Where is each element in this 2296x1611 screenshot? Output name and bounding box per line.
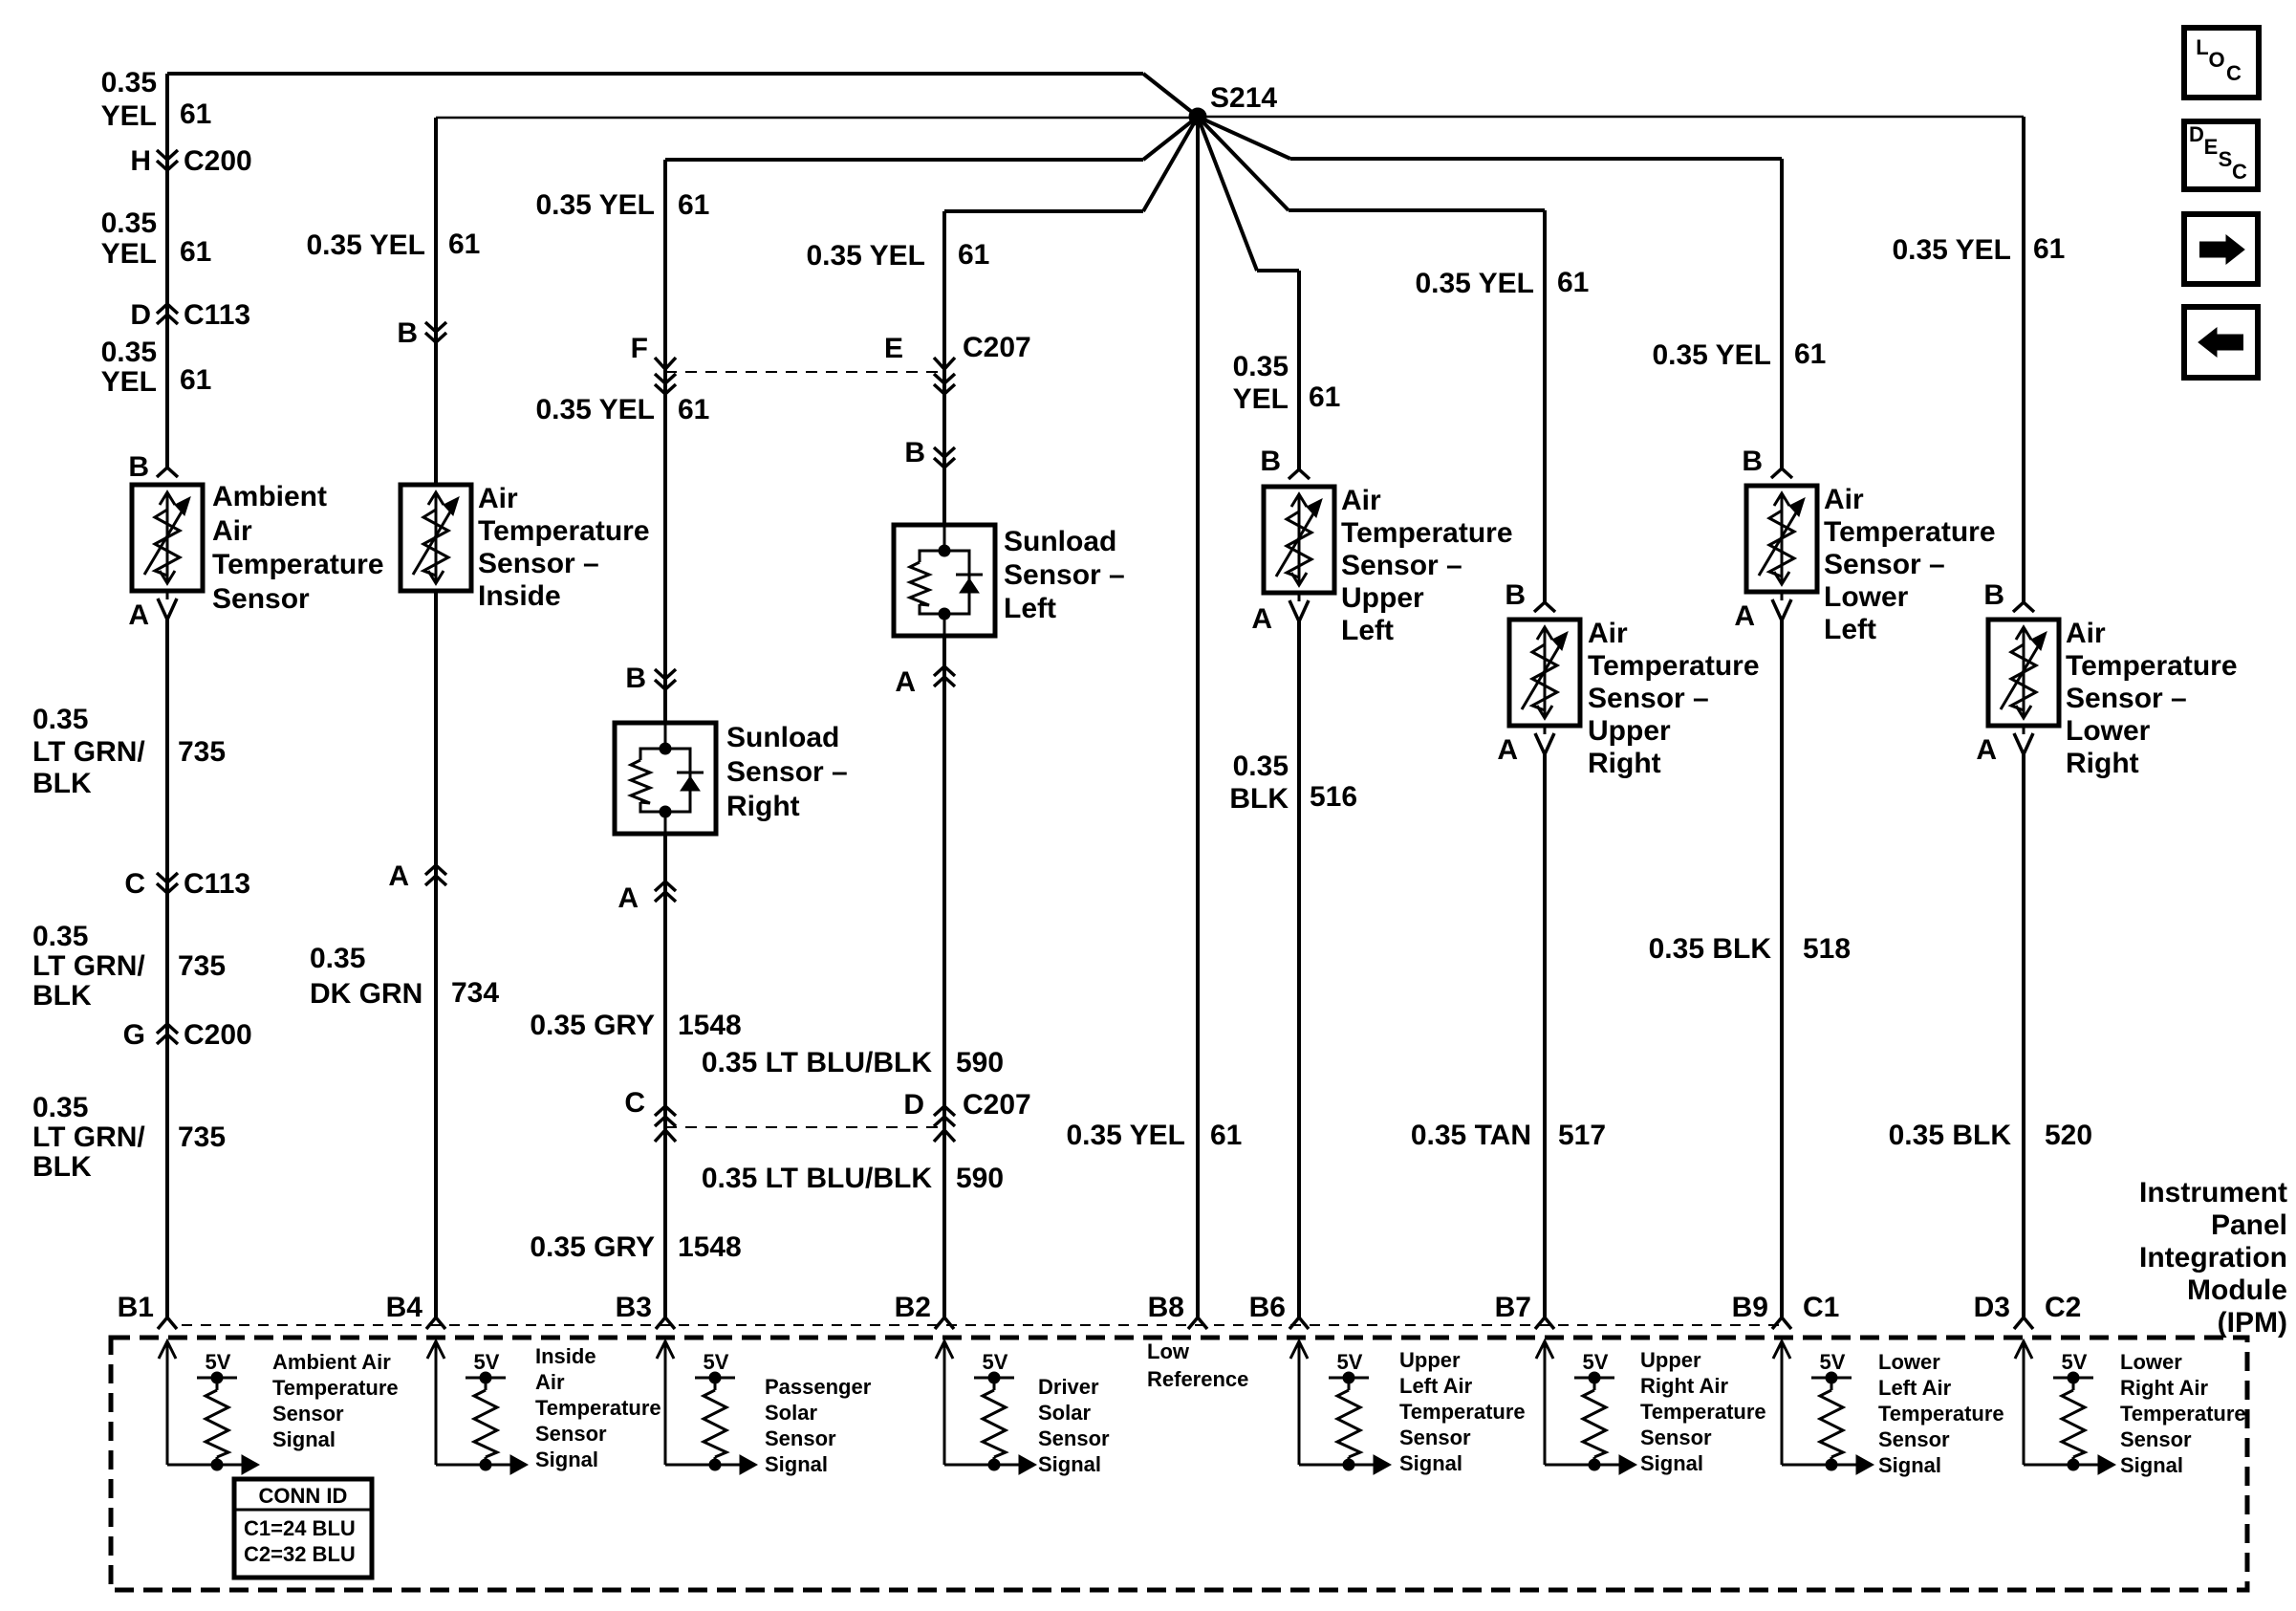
svg-text:0.35 LT BLU/BLK: 0.35 LT BLU/BLK [702, 1163, 932, 1194]
svg-text:Upper: Upper [1640, 1348, 1701, 1372]
svg-text:Air: Air [535, 1370, 565, 1394]
svg-text:61: 61 [180, 364, 211, 396]
svg-text:0.35 YEL: 0.35 YEL [306, 229, 425, 261]
svg-text:0.35: 0.35 [32, 1092, 88, 1123]
svg-text:BLK: BLK [32, 768, 92, 799]
svg-text:A: A [1734, 600, 1755, 632]
svg-text:61: 61 [1557, 267, 1589, 298]
svg-text:Signal: Signal [765, 1452, 828, 1476]
svg-text:Left: Left [1824, 614, 1876, 645]
svg-text:Sunload: Sunload [726, 722, 839, 753]
svg-text:C: C [2232, 160, 2247, 184]
svg-text:Left Air: Left Air [1878, 1376, 1952, 1400]
svg-text:0.35 YEL: 0.35 YEL [806, 240, 925, 272]
svg-text:D: D [130, 299, 151, 331]
svg-text:Air: Air [478, 483, 518, 514]
svg-text:Temperature: Temperature [1640, 1400, 1766, 1424]
svg-text:61: 61 [448, 229, 480, 260]
svg-text:C2=32 BLU: C2=32 BLU [244, 1542, 356, 1566]
svg-text:Instrument: Instrument [2139, 1177, 2287, 1208]
svg-text:Sensor –: Sensor – [1824, 549, 1945, 580]
svg-text:5V: 5V [206, 1350, 231, 1374]
svg-text:Panel: Panel [2211, 1209, 2287, 1241]
svg-text:Integration: Integration [2139, 1242, 2287, 1274]
svg-text:C2: C2 [2045, 1292, 2081, 1323]
svg-text:B: B [1742, 446, 1763, 477]
svg-text:Signal: Signal [1640, 1451, 1703, 1475]
svg-text:0.35: 0.35 [101, 337, 157, 368]
svg-text:B: B [1505, 579, 1526, 611]
svg-text:YEL: YEL [101, 100, 157, 132]
svg-text:F: F [631, 333, 648, 364]
svg-text:Sensor: Sensor [1640, 1426, 1712, 1449]
svg-text:5V: 5V [1337, 1350, 1363, 1374]
svg-text:735: 735 [178, 1121, 226, 1153]
svg-text:Air: Air [1824, 484, 1864, 515]
svg-text:Lower: Lower [2066, 715, 2151, 747]
svg-text:B6: B6 [1249, 1292, 1286, 1323]
svg-text:Temperature: Temperature [1399, 1400, 1526, 1424]
svg-text:BLK: BLK [32, 980, 92, 1012]
svg-text:C: C [624, 1087, 645, 1119]
svg-text:0.35: 0.35 [32, 704, 88, 735]
svg-text:Sensor: Sensor [1878, 1427, 1950, 1451]
svg-text:YEL: YEL [1233, 383, 1289, 415]
svg-text:Right: Right [726, 791, 800, 822]
svg-text:D3: D3 [1974, 1292, 2010, 1323]
svg-text:735: 735 [178, 950, 226, 982]
svg-text:Lower: Lower [2120, 1350, 2182, 1374]
svg-text:Sensor –: Sensor – [726, 756, 848, 788]
svg-text:Upper: Upper [1341, 582, 1424, 614]
svg-text:Sensor –: Sensor – [2066, 683, 2187, 714]
svg-text:A: A [128, 599, 149, 631]
svg-text:0.35 YEL: 0.35 YEL [1892, 234, 2011, 266]
svg-text:734: 734 [451, 977, 499, 1009]
svg-text:590: 590 [956, 1047, 1004, 1078]
svg-text:D: D [2189, 122, 2204, 146]
svg-text:590: 590 [956, 1163, 1004, 1194]
svg-text:Left: Left [1004, 593, 1056, 624]
svg-text:Temperature: Temperature [1341, 517, 1513, 549]
svg-text:Temperature: Temperature [212, 549, 384, 580]
svg-text:Sensor: Sensor [212, 583, 310, 615]
svg-text:Signal: Signal [1878, 1453, 1941, 1477]
svg-text:0.35: 0.35 [32, 921, 88, 952]
svg-text:5V: 5V [474, 1350, 500, 1374]
svg-text:0.35 YEL: 0.35 YEL [1415, 268, 1534, 299]
svg-text:61: 61 [958, 239, 989, 271]
svg-text:Temperature: Temperature [2120, 1402, 2246, 1426]
svg-text:61: 61 [2033, 233, 2065, 265]
svg-text:0.35: 0.35 [101, 67, 157, 98]
svg-text:61: 61 [678, 394, 709, 425]
svg-text:C113: C113 [184, 868, 250, 900]
svg-text:A: A [1497, 734, 1518, 766]
svg-text:5V: 5V [1820, 1350, 1846, 1374]
svg-text:C207: C207 [963, 332, 1031, 363]
svg-text:Low: Low [1147, 1339, 1190, 1363]
svg-text:E: E [2204, 135, 2219, 159]
svg-text:Lower: Lower [1824, 581, 1909, 613]
svg-text:1548: 1548 [678, 1010, 742, 1041]
svg-text:Module: Module [2187, 1274, 2287, 1306]
svg-text:Temperature: Temperature [272, 1376, 399, 1400]
svg-text:Sensor: Sensor [765, 1426, 836, 1450]
svg-text:Sensor: Sensor [1038, 1426, 1110, 1450]
svg-text:0.35 YEL: 0.35 YEL [535, 394, 655, 425]
svg-text:L: L [2196, 35, 2208, 59]
svg-text:LT GRN/: LT GRN/ [32, 950, 145, 982]
svg-text:Signal: Signal [1399, 1451, 1462, 1475]
svg-text:Temperature: Temperature [1878, 1402, 2004, 1426]
svg-text:Inside: Inside [478, 580, 561, 612]
svg-text:Sensor –: Sensor – [1588, 683, 1709, 714]
svg-text:B: B [128, 451, 149, 483]
svg-text:0.35 GRY: 0.35 GRY [530, 1231, 655, 1263]
svg-text:A: A [1251, 603, 1272, 635]
svg-text:Sensor –: Sensor – [478, 548, 599, 579]
svg-text:Lower: Lower [1878, 1350, 1940, 1374]
svg-text:0.35 GRY: 0.35 GRY [530, 1010, 655, 1041]
svg-text:Signal: Signal [535, 1448, 598, 1471]
svg-text:B9: B9 [1732, 1292, 1768, 1323]
svg-text:Right: Right [2066, 748, 2139, 779]
svg-text:Ambient: Ambient [212, 481, 327, 512]
svg-text:735: 735 [178, 736, 226, 768]
svg-text:0.35: 0.35 [1233, 351, 1289, 382]
svg-text:B8: B8 [1148, 1292, 1184, 1323]
svg-text:Temperature: Temperature [1588, 650, 1760, 682]
svg-text:Sensor: Sensor [1399, 1426, 1471, 1449]
svg-text:B7: B7 [1495, 1292, 1531, 1323]
svg-text:0.35 BLK: 0.35 BLK [1889, 1120, 2012, 1151]
svg-text:Left: Left [1341, 615, 1394, 646]
svg-text:0.35 BLK: 0.35 BLK [1649, 933, 1772, 965]
svg-text:Air: Air [2066, 618, 2106, 649]
svg-text:C200: C200 [184, 145, 252, 177]
svg-text:1548: 1548 [678, 1231, 742, 1263]
svg-text:Temperature: Temperature [478, 515, 650, 547]
svg-text:A: A [388, 860, 409, 892]
svg-text:Sensor –: Sensor – [1341, 550, 1462, 581]
svg-text:Signal: Signal [272, 1427, 336, 1451]
svg-text:B1: B1 [118, 1292, 154, 1323]
svg-text:C: C [2226, 61, 2242, 85]
svg-text:G: G [123, 1019, 145, 1051]
svg-text:DK GRN: DK GRN [310, 978, 422, 1010]
svg-text:Passenger: Passenger [765, 1375, 872, 1399]
svg-text:0.35 YEL: 0.35 YEL [1066, 1120, 1185, 1151]
svg-text:61: 61 [180, 98, 211, 130]
svg-text:Air: Air [1588, 618, 1628, 649]
svg-text:Air: Air [212, 515, 252, 547]
svg-text:Upper: Upper [1399, 1348, 1461, 1372]
svg-text:Ambient Air: Ambient Air [272, 1350, 391, 1374]
svg-text:Signal: Signal [2120, 1453, 2183, 1477]
svg-text:0.35 TAN: 0.35 TAN [1411, 1120, 1531, 1151]
svg-text:BLK: BLK [32, 1151, 92, 1183]
svg-text:0.35 LT BLU/BLK: 0.35 LT BLU/BLK [702, 1047, 932, 1078]
svg-text:61: 61 [1794, 338, 1826, 370]
svg-text:Right: Right [1588, 748, 1661, 779]
svg-text:LT GRN/: LT GRN/ [32, 1121, 145, 1153]
svg-text:C207: C207 [963, 1089, 1031, 1121]
svg-text:Temperature: Temperature [535, 1396, 661, 1420]
svg-text:Sunload: Sunload [1004, 526, 1116, 557]
svg-text:S: S [2219, 147, 2233, 171]
svg-text:517: 517 [1558, 1120, 1606, 1151]
svg-text:Inside: Inside [535, 1344, 596, 1368]
svg-text:YEL: YEL [101, 366, 157, 398]
svg-text:61: 61 [1210, 1120, 1242, 1151]
svg-text:Sensor: Sensor [535, 1422, 607, 1446]
svg-text:A: A [895, 666, 916, 698]
svg-text:0.35: 0.35 [1233, 751, 1289, 782]
svg-text:Temperature: Temperature [1824, 516, 1996, 548]
svg-text:E: E [884, 333, 903, 364]
svg-text:C1: C1 [1803, 1292, 1839, 1323]
svg-text:518: 518 [1803, 933, 1851, 965]
svg-text:Sensor: Sensor [272, 1402, 344, 1426]
svg-text:B: B [904, 437, 925, 468]
svg-text:0.35: 0.35 [310, 943, 365, 974]
svg-text:61: 61 [1309, 381, 1340, 413]
svg-text:Solar: Solar [1038, 1401, 1091, 1425]
svg-text:61: 61 [180, 236, 211, 268]
svg-text:B3: B3 [616, 1292, 652, 1323]
svg-text:A: A [1976, 734, 1997, 766]
svg-text:S214: S214 [1210, 82, 1277, 114]
svg-text:Temperature: Temperature [2066, 650, 2238, 682]
svg-text:C113: C113 [184, 299, 250, 331]
svg-text:B: B [1983, 579, 2004, 611]
svg-text:B2: B2 [895, 1292, 931, 1323]
svg-text:C200: C200 [184, 1019, 252, 1051]
svg-text:D: D [903, 1089, 924, 1121]
svg-text:B: B [1260, 446, 1281, 477]
svg-text:Signal: Signal [1038, 1452, 1101, 1476]
svg-text:Reference: Reference [1147, 1367, 1248, 1391]
svg-text:5V: 5V [983, 1350, 1008, 1374]
svg-text:H: H [130, 145, 151, 177]
svg-text:Sensor –: Sensor – [1004, 559, 1125, 591]
svg-text:0.35: 0.35 [101, 207, 157, 239]
svg-text:Sensor: Sensor [2120, 1427, 2192, 1451]
svg-text:LT GRN/: LT GRN/ [32, 736, 145, 768]
svg-text:Right Air: Right Air [2120, 1376, 2208, 1400]
svg-text:516: 516 [1310, 781, 1357, 813]
svg-text:BLK: BLK [1229, 783, 1289, 815]
svg-text:5V: 5V [1583, 1350, 1609, 1374]
svg-text:YEL: YEL [101, 238, 157, 270]
svg-text:Right Air: Right Air [1640, 1374, 1728, 1398]
svg-text:Solar: Solar [765, 1401, 817, 1425]
svg-text:5V: 5V [704, 1350, 729, 1374]
svg-text:C: C [124, 868, 145, 900]
svg-text:0.35 YEL: 0.35 YEL [535, 189, 655, 221]
svg-text:Air: Air [1341, 485, 1381, 516]
svg-text:Left Air: Left Air [1399, 1374, 1473, 1398]
svg-text:61: 61 [678, 189, 709, 221]
svg-text:Driver: Driver [1038, 1375, 1099, 1399]
svg-text:A: A [617, 882, 639, 914]
svg-text:(IPM): (IPM) [2218, 1307, 2287, 1339]
svg-text:B: B [397, 317, 418, 349]
svg-text:520: 520 [2045, 1120, 2092, 1151]
svg-text:C1=24 BLU: C1=24 BLU [244, 1516, 356, 1540]
svg-text:B: B [625, 663, 646, 694]
svg-text:O: O [2208, 48, 2224, 72]
svg-text:CONN ID: CONN ID [259, 1484, 348, 1508]
svg-text:0.35 YEL: 0.35 YEL [1652, 339, 1771, 371]
svg-text:Upper: Upper [1588, 715, 1671, 747]
svg-text:5V: 5V [2062, 1350, 2088, 1374]
svg-text:B4: B4 [386, 1292, 423, 1323]
